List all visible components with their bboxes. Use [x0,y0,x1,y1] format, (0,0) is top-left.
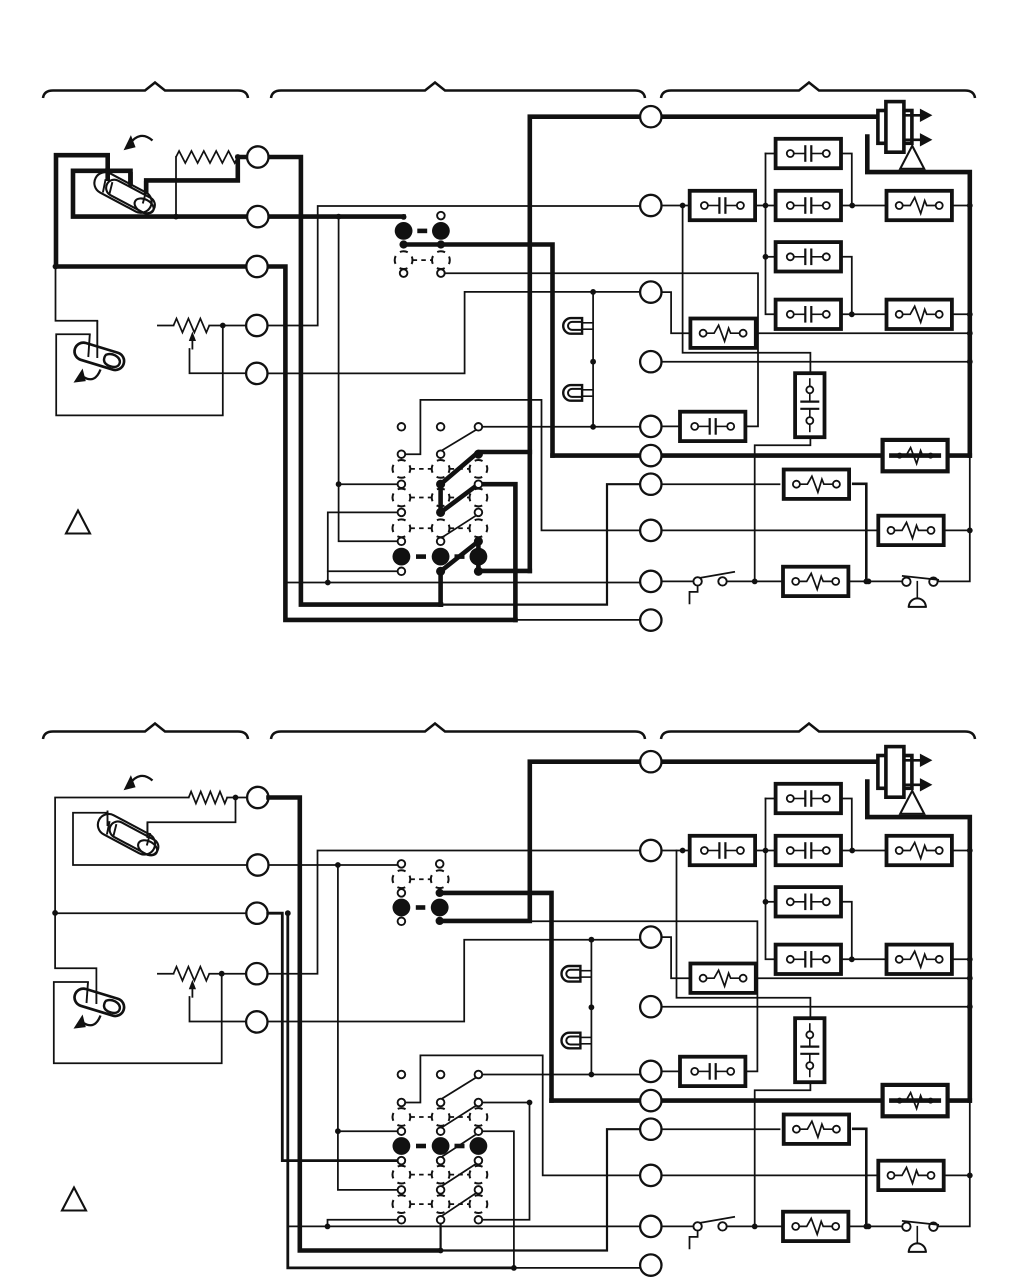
wire vertical x338 from circle L2 wire to rowH [339,217,402,542]
grid pin big dashed col2 rowG [432,519,450,537]
vertical contact box I (bottom) [795,1018,824,1082]
grid b pin small col2 rowD [437,1127,445,1135]
grid pin small col1 rowF [398,509,406,517]
wire grid rowD to vertical x338 [339,483,402,485]
grid pin big filled col3 rowI [470,548,488,566]
junction row M2 b (top) [763,203,769,209]
wire R2 wiper to circle L5 row [190,349,247,373]
grid pin small col2 rowB [437,450,445,458]
wire bottom row to circle M10b [514,1267,640,1269]
grid pin big dashed col1 rowE [393,489,411,507]
rotation arrow for S1 [129,136,153,145]
switch SW2 lever (bottom) [902,1221,939,1225]
wire thick circle L1 right to row 604 [269,157,442,605]
wire thick plug drop to right bus (top) [867,137,970,456]
contact box left-of-B (bottom) [690,836,755,865]
terminal circle L4b [246,963,267,984]
wire box A left stub (bottom) [766,798,776,800]
connector pin dashed right [432,251,450,269]
grid thick dash link rowI 2-3 [455,554,465,559]
terminal circle L2 [247,206,268,227]
grid b pin small col1 rowA [398,1071,406,1079]
wire row to circle M9 [285,582,639,584]
chime symbol (bottom) [916,1226,918,1244]
grid b pin big dashed col2 rowG [432,1166,450,1184]
resistor box K (bottom) [784,1115,849,1144]
junction x338 on thick L2 wire [336,214,342,220]
wire thick circle L3 right to row 620 [268,267,516,620]
junction x327.8 on row M9 [325,580,331,586]
grid b dash link rowG 1-2 [410,1174,431,1176]
wire main thick bus (top) [530,117,878,571]
wire switch to box M (top) [726,580,784,582]
junction lamp bus top b [589,937,595,943]
wire row604 thin part to circle M7 [441,484,640,604]
dash link filled pins b [416,905,426,910]
junction x327.5b [325,1224,331,1230]
brace middle section (bottom) [271,724,645,740]
thick jumper zigzag C (col2J to col3H) [441,541,479,571]
resistor box G (bottom) [690,964,755,993]
quick-connect plug (top) [878,102,933,153]
terminal circle M8 (bottom) [640,1165,661,1186]
junction box G row bus (top) [967,330,973,336]
resistor box F (bottom) [887,945,952,974]
wire box M to right switch (top) [848,580,903,582]
switch SW2 contact b (top) [929,578,937,586]
S1 pin3 overlay [144,181,149,194]
contact box A (bottom) [776,784,841,813]
wire grid b col3 rowA to circle M5b [478,1074,640,1076]
wire rowDb tap [338,1130,398,1132]
rotation arrow for S1b [129,776,153,785]
wire circle M5 to box H (bottom) [662,1070,681,1072]
terminal circle M2 (bottom) [640,840,661,861]
grid pin big dashed col2 rowC [432,460,450,478]
wire link boxes A-D left (bottom) [766,799,777,960]
wire row M2 (bottom) [662,850,970,852]
grid pin small col3 rowD [475,480,483,488]
wire loop S2b outer [54,974,222,1063]
wire grid col3 rowA to circle M5 [478,426,640,428]
grid b pin small col3 rowJ [475,1216,483,1224]
resistor box M (top) [783,567,848,596]
junction row M2 a (bottom) [680,848,686,854]
resistor box E (bottom) [887,836,952,865]
wire box K right down to switch row (top) [853,484,866,582]
contact small upper-right open [437,212,445,220]
wire circle L2b row to connector b [269,864,398,866]
dash link dashed pins b [410,878,430,880]
junction row M2 c (bottom) [849,848,855,854]
junction row M2 a (top) [680,203,686,209]
wire loop S2 outer [56,326,223,416]
S2 electrode pin A [96,321,98,358]
junction L3b split [285,910,291,916]
grid b dash link rowG 2-3 [450,1174,470,1176]
S2b electrode pin B [87,982,89,1003]
junction col3 rowB right b [527,1100,533,1106]
grid b pin small col1 rowD [398,1127,406,1135]
grid pin big dashed col2 rowE [432,489,450,507]
wire box G right to bus (bottom) [755,977,970,979]
grid b pin small col1 rowB [398,1099,406,1107]
S1b electrode mark 3 [147,833,150,846]
wire thick row M6 through box J (bottom) [552,1098,970,1103]
junction row M2 b (bottom) [763,848,769,854]
contact box A (top) [776,139,841,168]
switch SW1 contact b (top) [718,577,726,585]
wire lamp bus [592,292,594,427]
junction row M4 bus (bottom) [967,1004,973,1010]
junction row M4 bus (top) [967,359,973,365]
terminal circle L5 [246,363,267,384]
wire circle M8 to box L to bus (bottom) [662,1174,970,1176]
grid b dash link rowI 2-3 [450,1203,470,1205]
wire row D to box F to bus (top) [841,313,970,315]
warning triangle left (bottom) [62,1188,86,1211]
brace left section (bottom) [43,724,248,740]
junction switch row right (top) [866,579,872,585]
switch SW2 contact a (bottom) [902,1223,910,1231]
switch SW1 hook (bottom) [690,1231,698,1249]
potentiometer R2b wiper arrow [189,980,196,998]
switch SW2 contact b (bottom) [929,1223,937,1231]
grid b thick dash link rowE 1-2 [416,1144,426,1149]
indicator lamp 1b [562,966,592,982]
wire row M9b left [288,1225,640,1227]
brace right section (top) [661,83,975,99]
wire circle M7 to box K (top) [662,483,780,485]
thick resistor box J (bottom) [883,1085,948,1116]
terminal circle M2 (top) [640,195,661,216]
grid b dash link rowC 1-2 [410,1116,431,1118]
wire row M2 to box I top (top) [683,206,811,379]
grid pin big dashed col1 rowG [393,519,411,537]
junction row M8 bus (bottom) [967,1173,973,1179]
thin diagonal b F-D [441,1132,480,1157]
wire thick row M6 through box J (top) [553,453,970,458]
wire box G right to bus (top) [755,332,970,334]
brace left section (top) [43,83,248,99]
resistor R1b [189,792,228,804]
wire thick connector b to V2b [440,893,552,1101]
indicator lamp 2 [563,385,593,401]
switch SW2 contact a (top) [902,578,910,586]
grid b pin small col3 rowB [475,1099,483,1107]
grid b pin small col2 rowJ [437,1216,445,1224]
terminal circle M10 (top) [640,609,661,630]
wire thick plug drop to right bus (bottom) [867,782,970,1101]
grid b thick dash link rowE 2-3 [455,1144,465,1149]
wire circle L3b row [55,912,247,914]
thin diagonal col2B-col3A [441,428,480,451]
wire row D to box F to bus (bottom) [841,958,970,960]
indicator lamp 1 [563,318,593,334]
contact box D (bottom) [776,945,841,974]
wire thick connector to V2 bus [404,245,553,456]
wire R2b wiper to circle L5b row [190,997,247,1022]
thin diagonal b B-A [441,1076,480,1100]
junction R1 right lead [235,154,241,160]
grid pin big filled col2 rowI [432,548,450,566]
terminal circle M6 (bottom) [640,1090,661,1111]
wire row M4 to bus (top) [662,361,970,363]
grid b dash link rowC 2-3 [450,1116,470,1118]
terminal circle M4 (bottom) [640,996,661,1017]
thick col2 rowJ down to row604 [438,571,443,604]
chime symbol (top) [916,581,918,599]
contact box left-of-B (top) [690,191,755,220]
potentiometer R2b body [174,967,210,981]
grid pin small col2 rowA [437,423,445,431]
grid b pin big dashed col3 rowI [470,1195,488,1213]
contact small mid-right filled b [436,890,443,897]
wire box A left stub (top) [766,153,776,155]
S1b pin2 overlay [146,823,148,839]
section: top diagram [43,83,975,631]
resistor box F (top) [887,300,952,329]
potentiometer R2 body [174,319,210,333]
terminal circle L3b [246,903,267,924]
junction box G row bus (bottom) [967,975,973,981]
grid b pin small col3 rowA [475,1071,483,1079]
junction box K drop (top) [863,579,869,585]
connector pin big filled left b [393,899,411,917]
warning triangle right (top) [900,146,924,169]
contact box H (bottom) [680,1057,745,1086]
junction box C left (bottom) [763,899,769,905]
contact small below-right filled [438,241,445,248]
brace right section (bottom) [661,724,975,740]
junction lamp bus mid [590,359,596,365]
grid pin small col3 rowF [475,509,483,517]
junction col2 rowJ drop b [438,1248,444,1254]
connector pin dashed right b [431,870,449,888]
wire circle L3b to bottom row [288,913,514,1268]
grid b pin big dashed col1 rowC [393,1108,411,1126]
switch SW1 hook (top) [690,586,698,604]
wire link boxes A-D left (top) [766,154,777,315]
wire thick loop A to mercury switch S1 pin1 [56,155,246,266]
junction row M2 c (top) [849,203,855,209]
thick resistor box J (top) [883,440,948,471]
terminal circle M7 (bottom) [640,1119,661,1140]
grid b pin small col1 rowF [398,1157,406,1165]
terminal circle M1 (top) [640,106,661,127]
rotation arrow for S2b [84,1016,101,1026]
junction lamp bus bottom b [589,1072,595,1078]
grid pin small col1 rowH [398,538,406,546]
switch SW1 contact b (bottom) [718,1222,726,1230]
wire thick loop B circle L2 to S1 pin2 [73,171,247,217]
junction x338 rowD [336,481,342,487]
wire box C left stub (bottom) [766,901,776,903]
wire rowJb to row M9b [328,1220,398,1227]
wire circle L5 to circle M3 [268,292,641,374]
wire R2 to circle L4 [209,325,246,327]
wire row M2 (top) [662,205,970,207]
junction box I hook to switch row (top) [752,579,758,585]
terminal circle L4 [246,315,267,336]
connector pin big filled right b [431,899,449,917]
wire thick circle L1b right to row 1250 [269,798,441,1251]
junction row M2 bus (bottom) [967,848,973,854]
contact small mid-left open b [398,889,406,897]
contact small bottom-right open [437,269,445,277]
wire circle M9 to switch (top) [662,580,695,582]
switch SW1 contact a (bottom) [693,1222,701,1230]
grid b pin big dashed col3 rowG [470,1166,488,1184]
grid b pin small col1 rowH [398,1186,406,1194]
wire circle L4b up to row M2b [268,851,641,974]
junction row M2 bus (top) [967,203,973,209]
wire R1b junction to S1b pin [147,798,235,838]
wire R2b to circle L4b [209,973,246,975]
S1b electrode mark 1 [107,821,110,834]
wire thick circle L1 to S1 pin3 [146,157,247,192]
mercury switch S1 [91,168,160,218]
wire lamp bus b [590,940,592,1075]
wire spare contact to box H right [445,273,758,426]
wire circle M8 to box L to bus (top) [662,529,970,531]
switch SW1 lever (bottom) [700,1217,735,1223]
grid pin small col1 rowA [398,423,406,431]
wire circle L1b row + outer loop [55,798,247,992]
resistor box L (top) [878,516,943,545]
grid dash link rowC 1-2 [410,468,431,470]
switch SW2 lever (top) [902,576,939,580]
wire circle L5b to circle M3b [268,940,641,1022]
wire R2 left stub [158,325,174,327]
brace middle section (top) [271,83,645,99]
grid dash link rowG 1-2 [410,527,431,529]
wire row1250 thin to circle M7b [440,1129,640,1250]
mercury switch S2b [72,986,126,1018]
grid pin big dashed col3 rowG [470,519,488,537]
grid pin big dashed col1 rowC [393,460,411,478]
contact small below-left filled [400,241,407,248]
thin diagonal b J-H [441,1191,480,1217]
resistor box G (top) [690,319,755,348]
grid pin small col3 rowB [475,450,483,458]
grid pin small col1 rowJ [398,568,406,576]
thick jumper zigzag A (V1 to col2 rowD) [441,452,530,484]
junction x338b rowD [335,1128,341,1134]
mercury switch S2 [72,340,126,372]
grid pin small col1 rowD [398,480,406,488]
wire grid col1 rowB to circle M8 [401,400,639,531]
wire grid b col3 rowD to bottom row [478,1131,514,1268]
switch SW1 lever (top) [700,572,735,578]
wire branch circle L3 to S2 pin [56,267,98,321]
terminal circle M3 (bottom) [640,926,661,947]
wire box K right down to switch row (bottom) [853,1129,866,1227]
S1 electrode mark 1 [103,179,106,192]
wire circle M5 to box H (top) [662,425,681,427]
junction on circle L3 wire [53,264,59,270]
grid b pin small col3 rowH [475,1186,483,1194]
wire right bus thin lower (bottom) [937,1101,970,1227]
rotation arrow for S2 [84,370,101,380]
junction row D right (bottom) [849,956,855,962]
grid b pin big dashed col2 rowI [432,1195,450,1213]
terminal circle M5 (top) [640,416,661,437]
grid b pin small col3 rowF [475,1157,483,1165]
grid b pin small col2 rowA [437,1071,445,1079]
grid pin small col2 rowF [437,509,445,517]
S1 pin2 overlay [128,172,133,187]
S1 electrode mark 2 [109,182,112,194]
terminal circle M7 (top) [640,474,661,495]
wire thick circle L2 right to connector pin [269,214,404,219]
S1 pin1 overlay [105,168,110,181]
contact box D (top) [776,300,841,329]
resistor box E (top) [887,191,952,220]
junction row D right (top) [849,311,855,317]
grid pin small col1 rowB [398,450,406,458]
junction box I hook to switch row (bottom) [752,1224,758,1230]
grid b pin small col2 rowH [437,1186,445,1194]
wire R2b left stub [158,973,174,975]
contact small bottom-left open b [398,918,406,926]
junction x338b top [335,862,341,868]
grid b pin big dashed col1 rowG [393,1166,411,1184]
potentiometer R2 wiper arrow [189,332,196,350]
thin diagonal b D-B [441,1104,480,1129]
terminal circle L1b [247,787,268,808]
connector pin dashed left [395,251,413,269]
terminal circle L5b [246,1011,267,1032]
grid b pin big dashed col3 rowC [470,1108,488,1126]
contact box H (top) [680,412,745,441]
terminal circle L1 [247,146,268,167]
grid b pin big dashed col2 rowC [432,1108,450,1126]
thin diagonal b H-F [441,1162,480,1187]
wire box M to right switch (bottom) [848,1225,903,1227]
wire grid rowJ tap [328,570,402,572]
resistor box K (top) [784,470,849,499]
contact box B (top) [776,191,841,220]
terminal circle M3 (top) [640,281,661,302]
S1 electrode mark 3 [143,191,146,204]
wire vertical x338b [338,865,398,1190]
junction R1b right [233,795,239,801]
grid b pin big filled col3 rowE [470,1137,488,1155]
grid b dash link rowI 1-2 [410,1203,431,1205]
S2b electrode pin A [95,991,97,1004]
wire box A right to row M2 (bottom) [841,799,852,851]
terminal circle M6 (top) [640,445,661,466]
grid b pin small col3 rowD [475,1127,483,1135]
dash link filled pins [417,229,427,234]
wire spare contact b to box Hb right [530,921,758,1071]
junction lamp bus mid b [589,1004,595,1010]
contact small top-left open b [398,860,406,868]
connector pin big filled left [395,222,413,240]
wire thick main bus b + V1b [440,762,878,921]
junction box K drop (bottom) [863,1224,869,1230]
grid pin small col3 rowA [475,423,483,431]
wire grid b col2 rowJ down [440,1220,442,1251]
terminal circle M5 (bottom) [640,1061,661,1082]
grid b pin small col1 rowJ [398,1216,406,1224]
dash link dashed pins [413,259,433,261]
junction R1 left lead [173,214,179,220]
warning triangle right (bottom) [900,791,924,814]
grid dash link rowE 2-3 [450,497,470,499]
junction box C left (top) [763,254,769,260]
